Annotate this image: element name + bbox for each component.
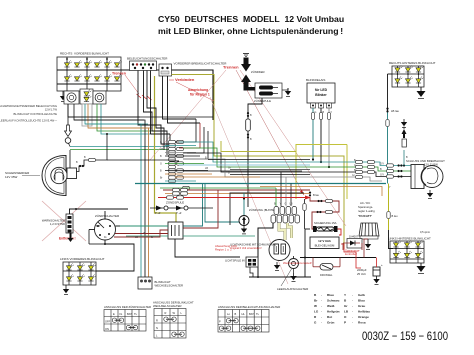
- svg-text:0,5 qmm: 0,5 qmm: [420, 230, 430, 234]
- wire: ignition left stub down: [88, 230, 90, 245]
- svg-text:Blau: Blau: [358, 299, 365, 303]
- wire: thick teal bus left half: [135, 183, 205, 185]
- black bus right: [300, 257, 376, 259]
- connector: capsules on maroon row: [173, 188, 180, 191]
- svg-text:N: N: [156, 326, 158, 330]
- svg-text:G/Y: G/Y: [380, 162, 385, 165]
- lighting coil connector box: [225, 257, 258, 267]
- svg-text:-: -: [352, 293, 353, 297]
- wire: teal row to tail circuit: [179, 142, 310, 162]
- red feed from harness to fuse: [158, 197, 310, 199]
- svg-text:-: -: [321, 310, 322, 314]
- svg-text:R: R: [156, 319, 158, 323]
- svg-text:ZÜNDKER.: ZÜNDKER.: [251, 70, 266, 74]
- svg-text:P +#: P +#: [155, 211, 161, 215]
- tail light: [406, 159, 445, 189]
- wire: LB teal drop to blinker switch connector: [85, 124, 141, 277]
- removed warn switch with red X: [42, 201, 86, 242]
- wire: headlight E1 feed vertical: [69, 150, 71, 168]
- svg-text:LG: LG: [314, 310, 319, 314]
- svg-text:Br: Br: [354, 169, 357, 172]
- maroon wire from regulator down to bus: [364, 239, 368, 258]
- wire: maroon drop to coil: [183, 190, 218, 228]
- wire: thick teal bus right half: [205, 183, 386, 185]
- wire: lighting switch pin4 vertical: [150, 71, 152, 135]
- svg-text:BAT: BAT: [96, 225, 101, 228]
- wire: bend into row 153: [183, 127, 204, 153]
- svg-text:Hellblau: Hellblau: [358, 310, 370, 314]
- ignition coil: [166, 201, 184, 240]
- svg-text:DROSSEL: DROSSEL: [320, 273, 333, 277]
- svg-text:RECHTS HINTERES BLINKLICHT: RECHTS HINTERES BLINKLICHT: [389, 61, 436, 65]
- wire: teal row to tail light: [310, 162, 411, 166]
- wire: flasher relay pin3 grey drop: [328, 108, 330, 167]
- wire: green bus from dimmer node: [70, 149, 175, 151]
- svg-text:LB: LB: [205, 167, 208, 170]
- wire: lighting switch pin3 drop: [147, 71, 164, 151]
- svg-text:B lau: B lau: [313, 193, 319, 197]
- connector stack above magneto: [271, 207, 300, 224]
- wire: speedo lamp L2 green to harness: [97, 104, 156, 131]
- svg-text:-: -: [321, 293, 322, 297]
- node: junction at x107: [106, 133, 108, 135]
- svg-text:VORDERER BREMSLICHTSCHALTER: VORDERER BREMSLICHTSCHALTER: [174, 62, 228, 66]
- svg-text:ZÜNDSPULE: ZÜNDSPULE: [166, 201, 184, 205]
- wire: black row to tail light: [310, 172, 411, 177]
- wire: flasher relay pin1 teal drop: [312, 108, 314, 160]
- thick connector arrows (battery feed): [241, 54, 266, 91]
- wire LED block to harness: [121, 70, 213, 120]
- wire: bend into row 142: [175, 119, 196, 142]
- svg-text:WECHSELSCHALTER: WECHSELSCHALTER: [153, 304, 182, 308]
- wire: black trunk row y174.5: [230, 174, 310, 176]
- svg-text:R: R: [165, 311, 167, 315]
- svg-text:Grau: Grau: [358, 304, 365, 308]
- svg-text:BLINKLICHT KONTROLLEUCHTE: BLINKLICHT KONTROLLEUCHTE: [14, 112, 58, 116]
- ground under top-left LED block: [60, 93, 66, 101]
- svg-text:Trennen: Trennen: [223, 65, 239, 70]
- wire: flasher relay pin2 black drop: [320, 108, 322, 162]
- svg-text:25 Volt: 25 Volt: [357, 272, 366, 276]
- svg-text:BLINKRELAIS: BLINKRELAIS: [306, 78, 325, 82]
- wire: speedo lamp L1 black to harness: [68, 104, 140, 117]
- tiny wire colour labels: [76, 111, 408, 239]
- svg-text:-: -: [352, 310, 353, 314]
- svg-text:W: W: [314, 304, 317, 308]
- yellow blinker circuit loop: [296, 145, 347, 200]
- pale yellow wires to magneto: [279, 223, 285, 240]
- black step wire from stack: [258, 223, 273, 277]
- ignition switch: [89, 211, 120, 244]
- engine enclosure box: [230, 193, 304, 225]
- svg-text:1,2 D.STND: 1,2 D.STND: [50, 222, 65, 226]
- olive wire loop: brake sw -> down -> across -> regulator: [172, 75, 345, 250]
- svg-text:Rot: Rot: [327, 315, 332, 319]
- red link battery to cap: [341, 244, 361, 268]
- svg-text:ZÜNDSCHALTER: ZÜNDSCHALTER: [95, 214, 120, 218]
- wire: brake switch pin2 drop: [168, 76, 201, 123]
- svg-text:Rosa: Rosa: [358, 321, 366, 325]
- svg-text:-: -: [352, 315, 353, 319]
- svg-text:BAT: BAT: [249, 312, 254, 316]
- wire: teal row y236 left of coil: [126, 235, 168, 237]
- wire: maroon pair upper to coil: [114, 233, 168, 235]
- wire: speedo lamp L2 teal to harness: [101, 104, 160, 134]
- wire: black drop 2 into stack: [290, 184, 292, 207]
- blinker changeover switch connector: [138, 277, 183, 289]
- svg-text:Verbinden: Verbinden: [175, 77, 195, 82]
- svg-text:B lau: B lau: [392, 214, 398, 218]
- svg-text:HL: HL: [242, 312, 246, 316]
- speedometer lamp right: [93, 91, 106, 104]
- svg-text:Br: Br: [160, 177, 163, 180]
- svg-text:Original 6 Volt unverändert !: Original 6 Volt unverändert !: [230, 246, 262, 250]
- wire: maroon pair lower to coil: [114, 230, 168, 237]
- wire: black row to tail circuit: [187, 153, 310, 172]
- wire: headlight black return to harness: [77, 134, 108, 172]
- svg-text:G: G: [315, 111, 317, 114]
- neutral switch: [277, 256, 309, 291]
- svg-text:P: P: [344, 321, 346, 325]
- svg-text:LB lau: LB lau: [391, 109, 399, 113]
- wire: ignition IG teal to coil T1: [116, 225, 168, 227]
- ground rail under engine: [249, 276, 311, 278]
- svg-text:für Region 1: für Region 1: [190, 93, 210, 97]
- olive vertical from lighting switch to coil area: [155, 76, 177, 222]
- svg-text:Blinker: Blinker: [315, 93, 327, 97]
- fuse on vertical: [246, 119, 251, 131]
- green row under bus: [160, 187, 276, 189]
- svg-text:Hellgrün: Hellgrün: [327, 310, 340, 314]
- table ignition switch: [104, 305, 151, 331]
- indicator LED in cluster: [80, 89, 93, 104]
- svg-text:-: -: [352, 304, 353, 308]
- wire: coil ground lead to rail: [175, 239, 240, 257]
- front brake light switch connector: [159, 62, 227, 77]
- svg-text:Br: Br: [151, 236, 154, 239]
- wire: lighting switch pin2 drop: [144, 71, 168, 156]
- ground right of relay box: [285, 88, 291, 96]
- wire: black trunk row y159.5: [208, 159, 310, 161]
- wire warn switch top: [70, 209, 129, 214]
- wire: ignition to front-left blinker FL2: [96, 244, 134, 271]
- svg-text:CY50 DEUTSCHES MODELL 12 Vo: CY50 DEUTSCHES MODELL 12 Volt Umbau: [158, 14, 344, 24]
- top-right LED block: [389, 61, 436, 87]
- connector: capsule on headlight wire: [89, 158, 96, 161]
- svg-text:LEERLAUF KONTROLLEUCHTE 12V/3,: LEERLAUF KONTROLLEUCHTE 12V/3,4W—: [0, 119, 57, 123]
- wire: bend into row 159: [183, 131, 208, 159]
- wire: black drop into stack: [280, 172, 282, 206]
- wire: teal bus from dimmer node: [70, 146, 175, 148]
- svg-text:IG: IG: [120, 312, 123, 316]
- node: ignition bottom junction: [104, 243, 106, 245]
- TR block wire down: [388, 73, 393, 75]
- wire: row y117 black: [68, 116, 213, 118]
- wire: lighting switch pin1 drop: [138, 71, 171, 145]
- svg-text:12V/1,7W: 12V/1,7W: [45, 108, 58, 112]
- wire: green drop into stack: [275, 188, 277, 206]
- svg-text:BLEI-GEL/AGM: BLEI-GEL/AGM: [315, 244, 335, 248]
- svg-text:BELEUCHTUNGSSCHALTER: BELEUCHTUNGSSCHALTER: [127, 57, 168, 61]
- svg-text:regler 1-adrig: regler 1-adrig: [358, 209, 375, 213]
- wire: black drop to blinker switch connector: [74, 120, 145, 277]
- svg-text:LB: LB: [290, 203, 293, 206]
- wire: brown row to engine box: [165, 193, 310, 195]
- wire: brown row y177: [175, 176, 260, 178]
- connector: capsules on brown row: [173, 192, 180, 195]
- svg-text:G: G: [160, 141, 162, 144]
- magneto: [269, 240, 290, 261]
- fuer LED Blinker relay: [306, 78, 335, 108]
- bullet on red feed: [309, 192, 311, 197]
- ground under TR block: [417, 87, 426, 99]
- bottom-right LED block (links hinten): [388, 237, 431, 264]
- headlight: [42, 156, 77, 196]
- svg-text:+: +: [381, 263, 383, 267]
- svg-text:P: P: [219, 320, 221, 324]
- svg-text:Wechselspannungsteil !: Wechselspannungsteil !: [283, 261, 312, 265]
- svg-text:G: G: [285, 203, 287, 206]
- wire: headlight return row y160: [107, 159, 175, 161]
- turn signal flasher (teal): [239, 193, 277, 226]
- wire: indicator LED teal to harness: [85, 104, 148, 124]
- svg-text:Blau: Blau: [327, 293, 334, 297]
- main switch relay box: [254, 83, 282, 103]
- olive wire to rear blinker: [388, 184, 390, 231]
- svg-text:LICHTSPULE 6V: LICHTSPULE 6V: [225, 259, 245, 263]
- svg-text:1N4007: 1N4007: [349, 235, 359, 239]
- svg-text:B: B: [235, 312, 237, 316]
- wire: light blue row y165: [179, 164, 310, 166]
- svg-text:"DUCATI": "DUCATI": [358, 214, 373, 218]
- svg-text:ANSCHLUSS DER BELEUCHTUNGSSCHA: ANSCHLUSS DER BELEUCHTUNGSSCHALTER: [218, 305, 280, 309]
- table lighting switch: [218, 305, 280, 332]
- svg-text:0030Z − 159 − 6100: 0030Z − 159 − 6100: [362, 329, 448, 343]
- second olive wire: [221, 141, 296, 152]
- svg-text:-: -: [352, 299, 353, 303]
- svg-text:BAT: BAT: [127, 312, 132, 316]
- svg-text:E: E: [113, 312, 115, 316]
- svg-text:-: -: [321, 315, 322, 319]
- wire: pin4 drop into rows: [170, 134, 179, 161]
- wire: black trunk row y169.5: [230, 169, 310, 171]
- svg-text:LINKS VORDERES BLINKLICHT: LINKS VORDERES BLINKLICHT: [60, 257, 105, 261]
- svg-text:-: -: [352, 321, 353, 325]
- electrolytic capacitor: [357, 258, 383, 277]
- svg-text:SICHERUNG 15A: SICHERUNG 15A: [314, 221, 337, 225]
- voltage regulator DUCATI: [358, 201, 379, 239]
- svg-text:LB: LB: [160, 148, 163, 151]
- bottom-left LED block (links vorne): [60, 257, 105, 285]
- speedo housing: [82, 104, 92, 126]
- wire: maroon feed row: [163, 189, 310, 191]
- harness connector column: capsules: [165, 140, 212, 189]
- wire: grey drop into stack: [285, 177, 287, 206]
- wire: bend into row 148 dark red: [179, 123, 200, 148]
- svg-text:Gr: Gr: [228, 167, 231, 170]
- svg-text:G: G: [160, 163, 162, 166]
- svg-text:-: -: [321, 299, 322, 303]
- svg-text:Grün: Grün: [327, 321, 335, 325]
- svg-text:ZÜNDSPULE: ZÜNDSPULE: [254, 99, 271, 103]
- choke (Drossel): [313, 258, 340, 278]
- wire: teal drop to coil secondary: [183, 184, 203, 227]
- svg-text:LEERLAUFSCHALTER: LEERLAUFSCHALTER: [277, 287, 309, 291]
- svg-text:RECHTS VORDERES BLINKLICHT: RECHTS VORDERES BLINKLICHT: [60, 52, 109, 56]
- svg-text:ZÜNDUNG (BUNTER): ZÜNDUNG (BUNTER): [249, 208, 277, 212]
- blinker indicator unit RECHTS+LINKS (top-left LED block): [57, 52, 122, 92]
- wire: green row to tail circuit: [183, 148, 310, 167]
- svg-text:Schwarz: Schwarz: [327, 299, 340, 303]
- svg-text:G: G: [354, 164, 356, 167]
- svg-text:mit LED Blinker, ohne Lichtspu: mit LED Blinker, ohne Lichtspulenänderun…: [158, 26, 343, 36]
- svg-text:IG: IG: [104, 236, 107, 239]
- svg-text:Trennen: Trennen: [112, 72, 126, 76]
- svg-text:Orange: Orange: [358, 315, 369, 319]
- svg-text:ANSCHLUSS DER ZÜNDSCHALTER: ANSCHLUSS DER ZÜNDSCHALTER: [104, 305, 151, 309]
- wire: brake switch pin1 drop: [163, 76, 197, 119]
- svg-text:Weiß: Weiß: [327, 304, 334, 308]
- wire: teal row y236 right of coil: [183, 235, 255, 237]
- svg-text:Abweichung: Abweichung: [188, 88, 208, 92]
- svg-text:OFF: OFF: [105, 320, 111, 324]
- svg-text:Gelb: Gelb: [358, 293, 365, 297]
- wire: green row to tail light: [310, 167, 411, 171]
- wire: teal drop to flasher: [205, 184, 244, 223]
- regulator ground: [365, 241, 371, 249]
- svg-text:kontrolle !: kontrolle !: [345, 252, 357, 256]
- rear brake light switch: [401, 119, 407, 166]
- wire: grey row stub: [310, 177, 382, 181]
- svg-text:LINKS HINTERES BLINKLICHT: LINKS HINTERES BLINKLICHT: [388, 237, 431, 241]
- svg-text:G/Y: G/Y: [380, 174, 385, 177]
- svg-text:WECHSELSCHALTER: WECHSELSCHALTER: [155, 284, 184, 288]
- svg-text:12V 35W: 12V 35W: [5, 175, 18, 179]
- svg-text:Gr: Gr: [352, 174, 355, 177]
- svg-text:LICHTMASCHINE MIT SCHWUNGRAD: LICHTMASCHINE MIT SCHWUNGRAD: [230, 243, 276, 247]
- wire: indicator LED brown to harness: [88, 104, 152, 128]
- svg-text:-: -: [321, 304, 322, 308]
- battery: [310, 237, 339, 249]
- lighting switch connector: [127, 57, 168, 71]
- connector: bullet pair on headlight wire: [79, 165, 84, 167]
- table blinker switch: [153, 301, 194, 339]
- svg-text:ON: ON: [105, 327, 109, 331]
- hollow arrow + circle under gauges: [65, 104, 72, 147]
- svg-text:P +#: P +#: [176, 211, 182, 215]
- wire: black row y171: [183, 170, 302, 172]
- svg-text:LB: LB: [135, 236, 138, 239]
- speedometer lamp left: [64, 91, 79, 104]
- arrow-pair inline connectors on coil feed: [150, 206, 213, 216]
- main fuse: [313, 221, 338, 232]
- wire: brown drop to blinker switch connector: [88, 128, 149, 277]
- wire from relay box down: [248, 98, 262, 119]
- wire: grey row to tail circuit: [183, 159, 310, 177]
- wire: speedo lamp L1 black 2 to harness: [74, 104, 144, 120]
- diode D1 1N4007: [343, 235, 362, 251]
- connector: capsules on red row: [167, 196, 174, 199]
- svg-text:12 V 9Ah: 12 V 9Ah: [318, 239, 331, 243]
- svg-text:für LED: für LED: [315, 88, 328, 92]
- svg-text:-: -: [321, 321, 322, 325]
- wire: brown row turning down: [260, 187, 382, 197]
